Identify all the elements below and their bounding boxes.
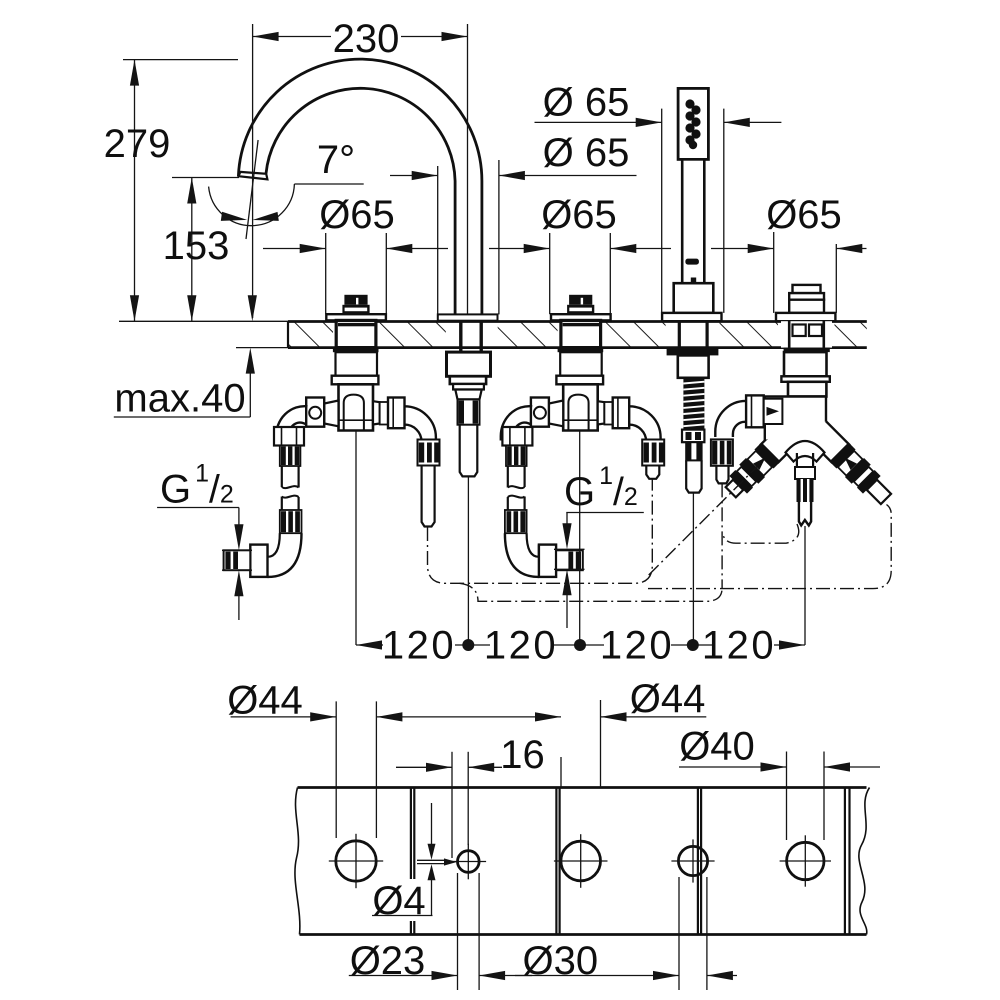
central outlet [797,453,813,467]
flange [662,313,721,321]
left elbow down [715,401,746,437]
handle H2 valve [501,295,664,466]
svg-text:Ø65: Ø65 [319,193,395,237]
ext line spout outlet centre [252,24,254,318]
svg-text:7°: 7° [317,138,355,182]
dim 153 [191,178,193,322]
svg-text:230: 230 [333,17,400,61]
dimension text group [104,17,842,983]
dim 16 [396,766,452,768]
hand shower (wand in holder above deck) [662,88,721,321]
dim Ø40 [679,766,787,768]
right break line [859,788,870,935]
crosshairs [329,834,831,888]
right 45° arm with ribbed coupling [803,416,896,509]
svg-text:Ø65: Ø65 [541,193,617,237]
svg-text:279: 279 [104,122,171,166]
svg-text:120: 120 [382,624,456,668]
saddle between arms [786,441,825,462]
hand shower below-deck connector [667,321,719,493]
svg-text:120: 120 [702,624,776,668]
handle H1 supply hose + G1/2 elbow [224,427,304,577]
wand tube [682,159,704,283]
ext line spout hole centre [467,24,469,314]
svg-text:16: 16 [500,733,545,777]
knob [793,285,821,293]
dim line spout escutcheon Ø 65 [390,175,438,177]
G 1/2 right [566,512,644,514]
svg-text:Ø30: Ø30 [522,939,598,983]
left hose end [716,466,728,484]
through-deck windows [781,321,832,347]
logo tick [685,259,699,265]
spout escutcheon flange [438,314,498,320]
left port hex [746,395,764,427]
svg-text:120: 120 [484,624,558,668]
deck slab (side view, hatched) [288,320,867,349]
handle H2 outlet hose (short, open end) [646,466,659,479]
svg-text:Ø65: Ø65 [766,193,842,237]
dim Ø23 [349,975,458,977]
deck top / bottom extension to the left [119,320,288,322]
120 dimension row [356,644,383,646]
holes [336,841,376,881]
svg-text:Ø 65: Ø 65 [543,81,630,125]
outer arc [238,59,482,314]
seam 2 [555,788,557,935]
svg-text:Ø40: Ø40 [679,725,755,769]
max.40 [114,416,251,418]
spout (gooseneck) [238,59,497,321]
seam 3 [697,788,699,935]
svg-text:Ø 65: Ø 65 [543,131,630,175]
left port threads with flow arrow [764,399,783,424]
dim Ø30 [515,975,679,977]
svg-text:120: 120 [600,624,674,668]
head [678,88,708,159]
seam 1 (with gap at Ø4 label) [410,788,412,880]
svg-text:153: 153 [163,224,230,268]
dim line hand shower Ø 65 [535,121,662,123]
strip outline [298,786,867,789]
7 degree arc with arrows [209,184,295,226]
svg-text:Ø44: Ø44 [630,677,706,721]
svg-text:max.40: max.40 [114,377,245,421]
G 1/2 left [157,507,239,509]
7 degree leg (tilted) [246,140,258,239]
left ribbed coupling [711,439,733,465]
dim Ø44 left [231,716,337,718]
outlet face [239,172,268,180]
left break line [295,788,300,935]
flange [776,313,835,321]
dim 279 [134,60,136,322]
svg-text:Ø4: Ø4 [372,879,425,923]
svg-text:Ø23: Ø23 [350,939,426,983]
spout below-deck shank and connector [447,321,491,477]
handle H1 valve [276,295,439,466]
below-deck [784,348,830,353]
central body [789,419,825,446]
centrelines down to 120 row [355,431,357,645]
handle H1 outlet hose (long, open end) [422,466,435,527]
dim 230 line [253,36,331,38]
Y body: left 45° arm with ribbed coupling [721,416,807,502]
7 degree leader [294,183,363,185]
inner arc [266,88,455,314]
handle H2 supply hose + G1/2 elbow (mirrored) [502,427,582,577]
dim row Ø65 handles / diverter [263,248,326,250]
holder [674,283,714,313]
svg-text:Ø44: Ø44 [227,679,303,723]
right seam double [844,788,846,935]
spray bead column [685,99,700,149]
Ø4 callout [431,803,433,846]
extension lines [325,233,327,314]
hatch gaps at faucet holes [333,320,380,349]
diverter (bath filler / diverter unit at cx=805) [711,285,896,526]
